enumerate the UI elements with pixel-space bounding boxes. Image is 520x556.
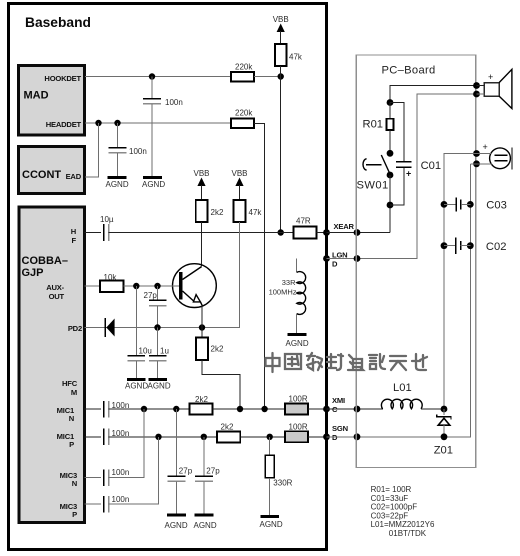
svg-text:OUT: OUT [49, 292, 65, 301]
capacitor 27p (base) [144, 286, 167, 328]
svg-text:AGND: AGND [125, 382, 148, 391]
svg-text:47k: 47k [289, 53, 303, 62]
junction MIC1N/27p [173, 406, 179, 412]
wire mic+ line [444, 154, 492, 410]
svg-text:P: P [72, 510, 77, 519]
svg-text:AGND: AGND [194, 521, 217, 530]
resistor 220k (HEADDET) [231, 109, 254, 129]
svg-text:100n: 100n [112, 495, 130, 504]
wire H/F to 47R (XEAR line) [109, 232, 294, 234]
capacitor 100n (MIC1 N) [104, 401, 130, 418]
svg-text:SGN: SGN [332, 424, 348, 433]
svg-text:Z01: Z01 [434, 445, 453, 457]
svg-text:H: H [71, 227, 76, 236]
junction SGND on PCB edge [354, 433, 361, 440]
svg-text:2k2: 2k2 [195, 395, 208, 404]
diode PD2 [105, 318, 114, 337]
wire speaker+ to rect [477, 86, 485, 95]
junction HEADDET/EAD [95, 120, 101, 126]
resistor 2k2 (emitter) [196, 338, 224, 361]
svg-text:47R: 47R [296, 217, 311, 226]
svg-text:P: P [69, 440, 74, 449]
svg-text:D: D [332, 433, 338, 442]
svg-text:HOOKDET: HOOKDET [44, 74, 81, 83]
svg-text:27p: 27p [144, 291, 158, 300]
power VBB (2k2 collector) [193, 169, 209, 200]
svg-text:C02=1000pF: C02=1000pF [371, 503, 418, 512]
junction MIC1P/27p [201, 434, 207, 440]
svg-text:Baseband: Baseband [25, 15, 91, 30]
svg-text:AGND: AGND [148, 382, 171, 391]
wire MIC1P line to 2k2 [109, 436, 217, 438]
wire EAD [85, 123, 99, 177]
inductor L01 [381, 382, 444, 409]
label Baseband [25, 15, 91, 30]
pin MIC1 P [57, 432, 75, 449]
svg-text:AGND: AGND [106, 180, 129, 189]
IC CCONT [19, 147, 85, 194]
wire mic- stub [470, 163, 492, 165]
wire H/F pin [85, 232, 102, 234]
wire 100R to XMIC port [308, 408, 326, 410]
junction R01/C01 top [387, 99, 394, 106]
svg-text:27p: 27p [179, 467, 193, 476]
svg-text:MAD: MAD [24, 90, 49, 102]
ground AGND (27p MIC1N) [165, 515, 188, 530]
IC MAD [19, 66, 85, 136]
svg-text:100n: 100n [129, 147, 147, 156]
wire 220k to VBB node [254, 76, 278, 78]
svg-text:10µ: 10µ [100, 215, 114, 224]
Baseband block border [9, 4, 327, 550]
svg-text:47k: 47k [249, 208, 263, 217]
svg-text:AUX-: AUX- [46, 283, 64, 292]
junction XMIC/220k branch [261, 406, 267, 412]
pin HEADDET [46, 120, 82, 129]
wire 47R to XEAR port [317, 232, 327, 234]
capacitor 100n (HOOKDET) [143, 73, 183, 177]
capacitor C01 [390, 103, 441, 206]
wire MIC3N to MIC1N line [109, 409, 144, 478]
microphone MIC [473, 142, 512, 170]
wire MIC1 N pin [85, 408, 102, 410]
transistor Q1 [173, 264, 217, 308]
IC COBBA-GJP [19, 207, 85, 523]
svg-text:SW01: SW01 [357, 180, 389, 192]
junction AUX/27p [154, 283, 160, 289]
svg-text:220k: 220k [235, 109, 253, 118]
junction AUX/10u [133, 283, 139, 289]
pin HOOKDET [44, 74, 81, 83]
wire 47k down to PD2 line [202, 222, 240, 328]
junction HEADDET/100n [114, 120, 120, 126]
resistor R01 [363, 103, 394, 154]
svg-text:VBB: VBB [273, 15, 289, 24]
svg-text:VBB: VBB [193, 169, 209, 178]
resistor 330R [265, 455, 292, 487]
wire XMIC to L01 [327, 408, 384, 410]
pin PD2 [68, 324, 82, 333]
junction SGND/330R [267, 434, 273, 440]
svg-text:10k: 10k [104, 273, 118, 282]
capacitor C02 [441, 238, 507, 255]
ground AGND (330R) [260, 517, 283, 530]
svg-text:M: M [71, 388, 77, 397]
wire LGND to PC-board [327, 94, 478, 259]
wire MIC1 P pin [85, 436, 102, 438]
capacitor 10u (AUX to AGND) [128, 286, 152, 380]
svg-text:COBBA–: COBBA– [22, 255, 68, 267]
wire 330R branch [269, 437, 271, 456]
wire MIC3P to MIC1P line [109, 437, 159, 504]
svg-text:+: + [483, 142, 488, 152]
pin EAD [66, 172, 82, 181]
pin MIC3 P [60, 502, 77, 519]
wire 220k to XMIC line [254, 124, 265, 410]
resistor 100R (XMIC) [285, 395, 308, 415]
capacitor 27p (MIC1P) [195, 437, 220, 515]
wire HEADDET line [85, 122, 231, 124]
svg-text:HEADDET: HEADDET [46, 120, 82, 129]
capacitor 1u (PD2 to AGND) [149, 328, 169, 380]
svg-text:XMI: XMI [332, 396, 345, 405]
resistor 2k2 (MIC1P series) [217, 423, 240, 443]
wire MIC3 P pin [85, 503, 102, 505]
junction L01/Z01 [441, 406, 448, 413]
wire collector [201, 222, 203, 266]
svg-text:AGND: AGND [260, 520, 283, 529]
junction MIC1P/MIC3P [155, 434, 161, 440]
svg-text:330R: 330R [273, 479, 292, 488]
wire 2k2 to 100R (XMIC) [212, 408, 285, 410]
svg-text:R01: R01 [363, 119, 384, 131]
port XMIC [323, 396, 345, 414]
wire 330R to AGND [269, 478, 271, 517]
svg-text:C01=33uF: C01=33uF [371, 494, 409, 503]
resistor 10k [100, 273, 124, 292]
svg-text:10u: 10u [139, 347, 152, 356]
svg-text:100R: 100R [289, 395, 308, 404]
svg-text:L01=MMZ2012Y6: L01=MMZ2012Y6 [371, 520, 435, 529]
svg-text:2k2: 2k2 [211, 208, 224, 217]
wire HOOKDET to 220k [85, 76, 231, 78]
wire XEAR to PC-board [327, 232, 391, 234]
junction LGND on PCB edge [354, 255, 361, 262]
wire MIC1N line to 2k2 [109, 408, 190, 410]
ground AGND (1u) [148, 380, 171, 391]
PC-Board outline [356, 55, 476, 468]
resistor 47k (top) [275, 44, 303, 66]
junction XMIC on PCB edge [354, 406, 361, 413]
junction PD2/emitter [199, 324, 205, 330]
wire AUX-OUT pin [85, 285, 101, 287]
svg-text:HFC: HFC [62, 379, 78, 388]
port XEAR [323, 222, 354, 236]
power VBB (47k bias) [231, 169, 247, 200]
note component values [371, 485, 435, 538]
pin AUX-OUT [46, 283, 64, 301]
svg-text:220k: 220k [235, 63, 253, 72]
pin MIC1 N [57, 406, 75, 423]
inductor 33R 100MHz [269, 259, 306, 335]
watermark [266, 353, 428, 372]
junction XMIC/emitter branch [237, 406, 243, 412]
svg-text:CCONT: CCONT [22, 169, 61, 181]
svg-text:F: F [72, 236, 77, 245]
resistor 2k2 (collector load) [196, 200, 224, 222]
switch SW01 [357, 150, 394, 192]
zener Z01 [434, 409, 453, 457]
junction MIC1N/MIC3N [141, 406, 147, 412]
resistor 47k (bias) [234, 200, 263, 222]
junction XEAR on PCB edge [354, 229, 361, 236]
svg-text:27p: 27p [206, 467, 220, 476]
capacitor 10u (H/F) [100, 215, 114, 241]
wire 10k to base [124, 285, 180, 287]
svg-text:D: D [332, 260, 338, 269]
junction SW01/C01 bottom [387, 202, 394, 209]
svg-text:AGND: AGND [165, 521, 188, 530]
ground AGND (27p MIC1P) [194, 515, 217, 530]
svg-text:AGND: AGND [142, 180, 165, 189]
ground AGND (under 100n HEADDET) [106, 178, 129, 190]
junction PD2/27p [154, 324, 160, 330]
pin H F [71, 227, 77, 245]
wire 100R to SGND port [308, 436, 326, 438]
junction HOOKDET/47k [278, 73, 284, 79]
wire emitter to 2k2 [201, 306, 203, 338]
svg-text:N: N [72, 479, 77, 488]
resistor 2k2 (MIC1N series) [190, 395, 213, 415]
svg-text:C03: C03 [486, 200, 507, 212]
power VBB (top) [273, 15, 289, 44]
svg-text:XEAR: XEAR [334, 222, 355, 231]
svg-text:+: + [406, 169, 411, 179]
pin HFC M [62, 379, 78, 397]
capacitor 27p (MIC1N) [167, 409, 192, 515]
capacitor 100n (MIC1 P) [104, 429, 130, 446]
wire SGND line on PCB [327, 164, 471, 437]
ground AGND (inductor) [286, 335, 309, 349]
svg-text:AGND: AGND [286, 339, 309, 348]
capacitor 100n (HEADDET) [109, 123, 147, 178]
wire speaker top feed [390, 86, 477, 103]
svg-text:GJP: GJP [22, 267, 44, 279]
resistor 220k (HOOKDET) [231, 63, 254, 82]
port SGND [323, 424, 348, 442]
svg-text:PC–Board: PC–Board [382, 64, 436, 76]
wire 47k down to XEAR line [280, 66, 282, 233]
svg-text:+: + [488, 72, 493, 82]
svg-text:100R: 100R [289, 422, 308, 431]
svg-text:100MHz: 100MHz [269, 288, 297, 297]
svg-text:N: N [69, 414, 74, 423]
port LGND [323, 251, 347, 269]
capacitor 100n (MIC3 P) [104, 495, 130, 513]
capacitor C03 [441, 197, 507, 211]
svg-text:C03=22pF: C03=22pF [371, 511, 409, 520]
svg-text:PD2: PD2 [68, 324, 82, 333]
wire SW01 to XEAR [389, 175, 391, 233]
svg-text:2k2: 2k2 [221, 423, 234, 432]
resistor 47R [294, 217, 317, 239]
svg-text:100n: 100n [112, 468, 130, 477]
wire emitter 2k2 to XMIC line [202, 360, 240, 409]
wire 2k2 to 100R (SGND) [240, 436, 285, 438]
svg-text:C02: C02 [486, 241, 507, 253]
svg-text:C01: C01 [421, 160, 442, 172]
svg-text:EAD: EAD [66, 172, 82, 181]
ground AGND (10u) [125, 380, 148, 391]
resistor 100R (SGND) [285, 422, 308, 442]
svg-text:VBB: VBB [231, 169, 247, 178]
svg-text:2k2: 2k2 [211, 345, 224, 354]
svg-text:1u: 1u [160, 347, 169, 356]
wire MIC3 N pin [85, 477, 102, 479]
svg-text:L01: L01 [393, 382, 412, 394]
svg-text:R01= 100R: R01= 100R [371, 485, 412, 494]
svg-text:100n: 100n [165, 98, 183, 107]
wire PD2 pin line [85, 327, 240, 329]
capacitor 100n (MIC3 N) [104, 468, 130, 486]
svg-text:01BT/TDK: 01BT/TDK [389, 529, 427, 538]
speaker SP [473, 69, 512, 108]
svg-text:33R: 33R [282, 278, 296, 287]
pin MIC3 N [60, 471, 77, 488]
junction on XEAR line [278, 229, 284, 235]
ground AGND (under 100n HOOKDET) [142, 178, 165, 190]
